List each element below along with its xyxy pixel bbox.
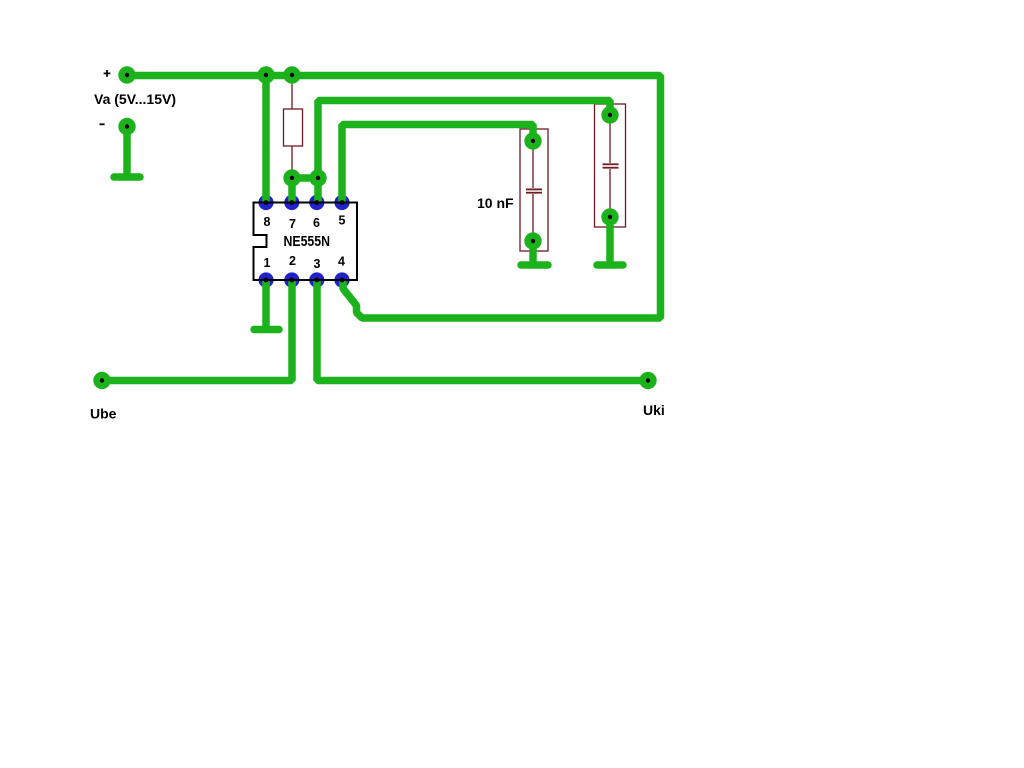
svg-text:5: 5 — [339, 214, 346, 228]
svg-text:Uki: Uki — [643, 402, 665, 418]
svg-text:1: 1 — [264, 256, 271, 270]
svg-text:NE555N: NE555N — [284, 233, 331, 250]
svg-text:7: 7 — [289, 217, 296, 231]
svg-text:4: 4 — [338, 255, 345, 269]
svg-text:2: 2 — [289, 254, 296, 268]
svg-text:3: 3 — [314, 257, 321, 271]
svg-text:Ube: Ube — [90, 406, 117, 422]
svg-text:Va (5V...15V): Va (5V...15V) — [94, 91, 176, 107]
svg-text:6: 6 — [313, 216, 320, 230]
svg-text:10 nF: 10 nF — [477, 195, 514, 211]
svg-text:8: 8 — [264, 215, 271, 229]
